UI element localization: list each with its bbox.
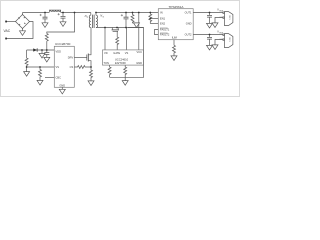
EN1 wire (150, 18, 158, 20)
cap C6 plates (207, 38, 212, 40)
VOUT rail (96, 12, 158, 14)
EN2 wire (150, 23, 158, 25)
svg-text:FAULT1: FAULT1 (160, 28, 170, 32)
cap C6 wires (209, 35, 211, 46)
transformer T1 primary winding (89, 13, 91, 28)
CBC wire to U1 (45, 76, 54, 78)
plus mark C2 (58, 13, 60, 15)
node dot rail startup (74, 12, 76, 14)
node dot chain1 VS (26, 66, 28, 68)
ground USB2 (212, 45, 218, 50)
svg-text:VDD: VDD (56, 49, 62, 53)
transistor Q2 gate bar (113, 30, 118, 32)
wire VCC drop (138, 13, 140, 50)
svg-text:UCC28700: UCC28700 (55, 42, 71, 46)
cap C1 plates (43, 17, 48, 19)
bridge diode marks (19, 17, 26, 25)
node dot VD tap (104, 27, 106, 29)
cap C2 plates (61, 16, 66, 18)
cap C5 wires (209, 13, 211, 24)
chain R3 divider (39, 67, 42, 80)
DRV wire (74, 57, 87, 59)
ground R11 (171, 56, 177, 61)
ground USB1 (212, 23, 218, 28)
VAC terminal bottom (5, 38, 7, 40)
node dot EN pullup (149, 12, 151, 14)
resistor R1 startup (45, 34, 48, 42)
transistor Q1 drain wire (88, 28, 91, 55)
ground R5 (88, 81, 94, 86)
node dot C4 bottom (125, 27, 127, 29)
USB1 connector shell (224, 12, 233, 26)
transistor Q1 source wire (88, 61, 91, 67)
resistor R9 EN/TOFF (124, 65, 127, 77)
wire VAC bottom return (7, 22, 33, 39)
top rail primary right (61, 12, 91, 14)
node dot C4 top (125, 12, 127, 14)
cap C3 plates (44, 53, 49, 55)
ground SR rail (134, 23, 140, 28)
cap C1 wires (44, 13, 46, 23)
transistor Q1 channel (87, 54, 89, 62)
svg-text:GND: GND (219, 39, 224, 41)
node dot rail C1 (44, 12, 46, 14)
resistor R10 EN pullup (149, 13, 152, 24)
ground bridge (20, 31, 26, 36)
wire VD drop (104, 28, 106, 50)
node dot SR fet body (116, 27, 118, 29)
svg-text:GND: GND (186, 22, 192, 26)
FAULT tie bracket (155, 30, 159, 35)
chain R2 from VDD wire down (25, 50, 28, 72)
transistor Q2 channel (112, 29, 119, 31)
svg-text:GND: GND (136, 61, 142, 65)
svg-text:GATE: GATE (113, 51, 120, 55)
wire bridge top to rail (22, 13, 24, 15)
U2 UCC24610 box (103, 50, 144, 65)
transformer T1 secondary winding (96, 13, 98, 28)
node dot C5 (209, 12, 211, 14)
ground C6 (207, 45, 213, 50)
wire bridge bottom stub (22, 29, 24, 31)
ground R2 (24, 72, 30, 77)
svg-text:VS: VS (125, 51, 129, 55)
svg-text:EN2: EN2 (160, 22, 166, 26)
USB2 pin stubs (223, 34, 225, 35)
svg-text:IN: IN (160, 11, 163, 15)
svg-text:VAC: VAC (4, 29, 11, 33)
resistor R8 TON (108, 65, 111, 77)
node dot EN1 (149, 18, 151, 20)
cap C3 wires (46, 50, 48, 57)
U2 gnd stub (124, 77, 126, 80)
border frame (1, 1, 240, 97)
resistor R6 gate (116, 31, 119, 50)
node dot VCC tap (138, 12, 140, 14)
U1 GND stub (61, 87, 63, 89)
svg-text:FAULT2: FAULT2 (160, 33, 170, 37)
svg-text:CBC: CBC (56, 75, 62, 79)
diode D2 body (33, 48, 37, 51)
resistor R11 ILIM (173, 45, 176, 56)
node dot R7 top (132, 12, 134, 14)
ground C5 (207, 23, 213, 28)
svg-text:EN/TOFF: EN/TOFF (115, 61, 126, 65)
ground U2 net (122, 81, 128, 86)
wire R1 to VDD node (46, 41, 48, 50)
USB2 connector shell (224, 34, 233, 48)
svg-text:TON: TON (104, 61, 110, 65)
VDD node wire (27, 49, 55, 51)
OUT1 wire (193, 12, 224, 14)
ILIM stub (173, 40, 175, 46)
plus mark C1 (40, 14, 42, 16)
diode D2 cathode bar (36, 48, 38, 51)
inductor L1 (49, 10, 60, 12)
svg-text:OUT2: OUT2 (185, 33, 192, 37)
ground R3 (37, 80, 43, 85)
cap C2 wires (62, 13, 64, 22)
top rail primary (23, 12, 50, 14)
svg-text:VD: VD (104, 51, 108, 55)
node dot CS (90, 66, 92, 68)
cap C4 output wires (125, 13, 127, 28)
svg-text:GND: GND (59, 84, 65, 88)
svg-text:GND: GND (219, 17, 224, 19)
USB2 gnd return (215, 40, 224, 45)
svg-text:EN1: EN1 (160, 17, 166, 21)
svg-text:CS: CS (70, 65, 74, 69)
VS wire to U1 (27, 66, 55, 68)
U3 TPS2561A box (158, 9, 193, 40)
node dot aux gnd (41, 49, 43, 51)
startup branch wire (47, 13, 75, 34)
resistor R4 CS (74, 66, 91, 69)
U1 UCC28700 box (54, 46, 74, 87)
overline FAULT1 (160, 27, 168, 29)
svg-text:DRV: DRV (68, 55, 74, 59)
node dot C6 (209, 34, 211, 36)
svg-text:VS: VS (56, 65, 60, 69)
resistor R7 load (131, 13, 137, 23)
wire VS drop (126, 28, 128, 50)
USB1 pin stubs (223, 12, 225, 13)
ground C2 (60, 22, 66, 27)
svg-text:TPS2561A: TPS2561A (169, 5, 185, 9)
wire SR rail patch (128, 27, 144, 29)
cap C5 plates (207, 16, 212, 18)
node dot rail C2 (62, 12, 64, 14)
ground C3 (44, 57, 50, 62)
ground C1 (42, 23, 48, 28)
svg-text:ILIM: ILIM (172, 36, 177, 40)
node dot C3 (46, 49, 48, 51)
transistor Q1 gate bar (86, 55, 88, 61)
svg-text:VCC: VCC (137, 50, 143, 54)
svg-text:OUT1: OUT1 (185, 11, 192, 15)
gnd stub on aux net (41, 50, 43, 53)
SR return rail (96, 27, 144, 29)
svg-text:USB: USB (229, 37, 231, 42)
bridge rectifier BR1 diamond (16, 15, 30, 29)
ground U1 (59, 89, 65, 94)
OUT2 wire (193, 34, 224, 36)
ground aux net (39, 53, 45, 58)
resistor R5 current sense (90, 67, 93, 81)
node dot secondary top (95, 12, 97, 14)
wire VAC top to bridge (7, 21, 16, 23)
transformer T1 core (93, 15, 95, 28)
cap C4 plates (124, 17, 129, 19)
svg-text:UCC24610: UCC24610 (115, 57, 129, 61)
VAC terminal top (5, 21, 7, 23)
secondary ground column (110, 28, 144, 78)
svg-text:USB: USB (229, 15, 231, 20)
plus mark C4 (121, 14, 123, 16)
transistor Q2 SR fet stubs (112, 28, 118, 30)
USB1 gnd return (215, 18, 224, 23)
node dot VS div (39, 66, 41, 68)
overline FAULT2 (160, 32, 168, 34)
